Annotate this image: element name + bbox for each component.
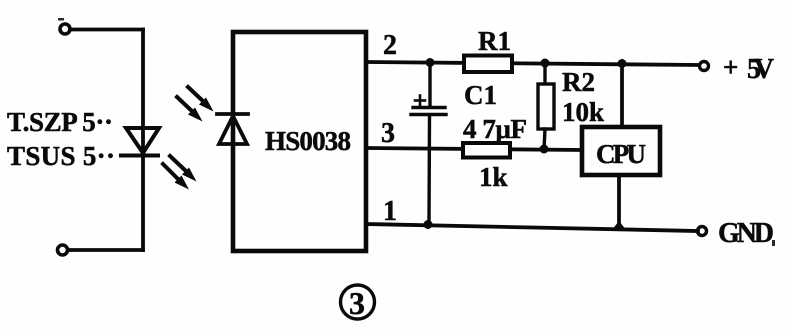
CPU box [582, 127, 660, 175]
HS0038 receiver module box U1 [233, 32, 366, 251]
wire CPU bottom [617, 175, 621, 227]
node: C1 top junction [426, 58, 435, 67]
photodiode on module edge [217, 114, 248, 144]
scan speck near top terminal [58, 18, 64, 21]
svg-text:5V: 5V [747, 54, 774, 85]
terminal top-left [60, 24, 70, 34]
svg-text:1k: 1k [479, 162, 508, 192]
pin 3 wire [366, 148, 582, 150]
svg-text:+: + [723, 52, 738, 82]
wire top-left horizontal [70, 28, 143, 32]
node: CPU bottom junction [613, 221, 625, 229]
svg-text:HS0038: HS0038 [265, 126, 351, 156]
terminal GND [698, 227, 707, 236]
scan speck after GND [772, 240, 775, 246]
IR rays emitted from LED [163, 156, 197, 190]
wire LED branch vertical [141, 30, 145, 251]
node: CPU top junction [618, 59, 627, 68]
resistor R2 [538, 62, 554, 149]
svg-text:C1: C1 [464, 80, 497, 110]
pin 1 wire / GND rail [366, 224, 698, 231]
resistor R3 1k [463, 143, 510, 158]
pin 2 wire / +5V rail [366, 62, 699, 65]
node: R2 top junction [541, 59, 550, 68]
node: R2 bottom junction [540, 145, 549, 154]
svg-text:R1: R1 [478, 26, 511, 56]
svg-text:1: 1 [383, 196, 397, 227]
capacitor C1 [411, 62, 446, 224]
svg-text:4 7µF: 4 7µF [463, 114, 527, 144]
resistor R1 [464, 56, 512, 73]
terminal bottom-left [58, 245, 68, 255]
node: C1 bottom junction [424, 220, 433, 229]
figure number 3 [341, 285, 375, 319]
svg-text:3: 3 [349, 285, 365, 321]
svg-text:T.SZP 5··: T.SZP 5·· [7, 107, 113, 137]
svg-text:2: 2 [383, 30, 397, 61]
IR rays into photodiode [177, 87, 214, 122]
terminal +5V [700, 62, 709, 71]
svg-text:3: 3 [381, 118, 395, 149]
wire bottom-left horizontal [68, 248, 143, 252]
svg-text:10k: 10k [562, 97, 604, 127]
svg-text:R2: R2 [562, 67, 595, 97]
svg-text:CPU: CPU [596, 139, 646, 169]
svg-text:GND: GND [718, 218, 774, 249]
svg-text:TSUS 5··: TSUS 5·· [7, 141, 115, 171]
LED D1 (IR emitter) [121, 128, 159, 156]
wire CPU top [620, 63, 624, 127]
